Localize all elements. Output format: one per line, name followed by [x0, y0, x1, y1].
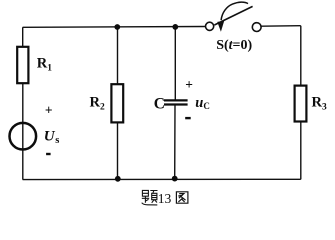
resistor R1	[17, 47, 28, 83]
node top R2 junction	[114, 24, 120, 30]
wire left vertical bottom	[22, 83, 24, 179]
label - of capacitor	[185, 117, 191, 119]
capacitor C plates	[164, 100, 188, 104]
switch left contact circle	[206, 22, 214, 30]
wire C branch	[174, 27, 177, 179]
caption character tu (图)	[176, 192, 188, 203]
switch right contact circle	[252, 23, 261, 32]
node bottom R2 junction	[115, 176, 121, 182]
resistor R3	[295, 86, 307, 122]
caption character ti (题)	[142, 190, 158, 205]
switch blade	[214, 6, 252, 25]
svg-text:S(t=0): S(t=0)	[216, 38, 252, 53]
wire right vertical	[300, 26, 302, 180]
svg-text:+: +	[45, 102, 53, 117]
resistor R2	[111, 84, 123, 122]
svg-text:+: +	[185, 77, 193, 92]
wire left vertical top	[22, 27, 24, 47]
svg-text:C: C	[154, 95, 165, 112]
wire R2 branch	[117, 27, 119, 179]
label - of source	[46, 153, 51, 155]
wire bottom horizontal	[23, 178, 301, 180]
switch arrowhead	[217, 21, 224, 32]
node top C junction	[172, 24, 178, 30]
node bottom C junction	[172, 176, 178, 182]
source US circle	[9, 123, 36, 150]
wire top left horizontal	[23, 26, 205, 29]
svg-text:13: 13	[158, 191, 172, 206]
wire top right horizontal	[261, 25, 301, 28]
switch closing arc	[221, 2, 248, 20]
